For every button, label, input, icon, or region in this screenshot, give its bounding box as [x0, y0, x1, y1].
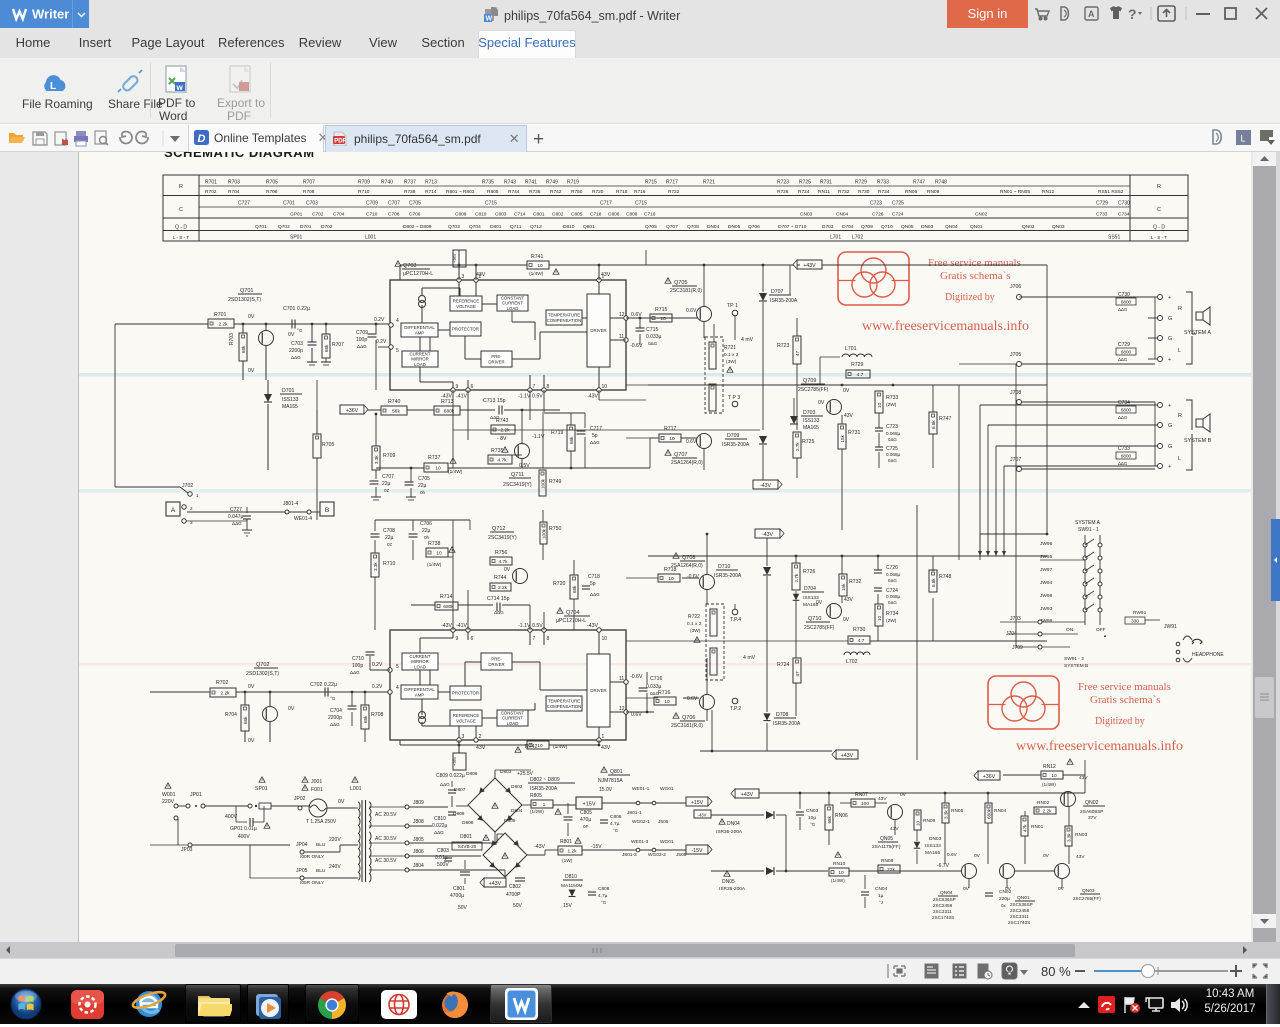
svg-text:D703: D703: [822, 224, 834, 230]
svg-text:QN04: QN04: [940, 890, 953, 896]
svg-text:Q704: Q704: [469, 224, 481, 230]
svg-text:C810: C810: [434, 816, 446, 822]
svg-text:R733: R733: [877, 180, 889, 186]
svg-text:COMPENSATION: COMPENSATION: [547, 318, 582, 323]
svg-text:µPC1270H-L: µPC1270H-L: [403, 271, 433, 277]
svg-text:GP01: GP01: [290, 212, 303, 218]
svg-text:SYSTEM B: SYSTEM B: [1064, 663, 1088, 669]
svg-text:1: 1: [196, 493, 199, 498]
svg-text:R744: R744: [508, 189, 520, 195]
svg-text:B: B: [325, 507, 329, 514]
svg-text:RN06: RN06: [835, 813, 848, 819]
svg-text:Q711: Q711: [510, 224, 522, 230]
svg-text:R729: R729: [851, 362, 864, 368]
svg-text:10: 10: [1051, 773, 1057, 779]
svg-text:Q710: Q710: [881, 224, 893, 230]
svg-text:8: 8: [547, 636, 550, 642]
svg-text:10: 10: [877, 402, 882, 408]
svg-text:ΔΔG: ΔΔG: [350, 670, 360, 675]
svg-text:4.7k: 4.7k: [497, 458, 507, 464]
svg-text:R747: R747: [939, 416, 952, 422]
svg-text:Q709: Q709: [803, 378, 816, 384]
svg-text:68k: 68k: [572, 585, 577, 593]
svg-text:4700P: 4700P: [506, 892, 521, 898]
svg-text:J705: J705: [1010, 352, 1021, 358]
svg-text:C802: C802: [552, 212, 564, 218]
svg-text:Q712: Q712: [492, 526, 505, 532]
svg-text:D810: D810: [563, 224, 575, 230]
svg-text:68k: 68k: [363, 715, 368, 723]
svg-text:ISR35-200A: ISR35-200A: [722, 442, 750, 448]
svg-text:COMPENSATION: COMPENSATION: [547, 704, 582, 709]
svg-text:0.6V: 0.6V: [631, 712, 642, 718]
svg-text:C715: C715: [485, 201, 497, 207]
svg-text:CN02: CN02: [999, 889, 1012, 895]
svg-text:0V: 0V: [288, 706, 295, 712]
svg-text:Q706: Q706: [682, 715, 695, 721]
svg-text:C703: C703: [291, 341, 303, 347]
svg-text:C709: C709: [366, 201, 378, 207]
svg-text:AC 20.5V: AC 20.5V: [375, 812, 397, 818]
svg-text:100p: 100p: [356, 337, 367, 343]
svg-text:4.7µ: 4.7µ: [610, 821, 620, 827]
svg-text:C702 0.22µ: C702 0.22µ: [310, 682, 337, 688]
svg-text:R720: R720: [592, 189, 604, 195]
svg-text:QN01: QN01: [970, 224, 983, 230]
svg-text:°G: °G: [613, 828, 619, 833]
svg-text:R702: R702: [216, 680, 229, 686]
svg-text:(1/2W): (1/2W): [530, 809, 544, 814]
svg-text:D704: D704: [842, 224, 854, 230]
svg-text:RN01 ~ RN05: RN01 ~ RN05: [1000, 189, 1030, 195]
svg-text:2SC536SP: 2SC536SP: [933, 897, 956, 902]
svg-text:JW95: JW95: [1040, 554, 1053, 560]
svg-text:Q701: Q701: [255, 224, 267, 230]
svg-text:QN03: QN03: [1052, 224, 1065, 230]
svg-text:5p: 5p: [590, 581, 596, 587]
svg-text:C733: C733: [1096, 212, 1108, 218]
svg-text:-43V: -43V: [587, 394, 598, 400]
svg-text:C723: C723: [886, 424, 898, 430]
svg-text:22µ: 22µ: [422, 528, 431, 534]
svg-text:QN05: QN05: [880, 836, 893, 842]
svg-text:3.3k: 3.3k: [1066, 833, 1071, 842]
svg-text:15V: 15V: [563, 903, 573, 909]
svg-text:RN01: RN01: [1031, 824, 1044, 830]
svg-text:0V: 0V: [338, 799, 345, 805]
svg-text:+: +: [1168, 295, 1171, 301]
svg-text:CURRENT: CURRENT: [409, 654, 430, 659]
svg-text:AC 30.5V: AC 30.5V: [375, 836, 397, 842]
svg-text:R756: R756: [495, 550, 508, 556]
svg-text:RN05: RN05: [951, 808, 964, 814]
svg-text:R717: R717: [666, 180, 678, 186]
svg-text:C727: C727: [238, 201, 250, 207]
svg-text:J709: J709: [1012, 645, 1023, 651]
svg-text:2SC2458: 2SC2458: [933, 903, 953, 908]
svg-text:JW91: JW91: [1164, 624, 1177, 630]
svg-text:C727: C727: [230, 507, 242, 513]
svg-text:0≠: 0≠: [1001, 903, 1006, 908]
svg-text:R726: R726: [803, 569, 816, 575]
svg-text:1.2k: 1.2k: [567, 849, 577, 855]
svg-text:1: 1: [543, 802, 546, 808]
svg-text:DRIVER: DRIVER: [590, 328, 606, 333]
svg-text:+43V: +43V: [803, 263, 816, 269]
svg-text:100: 100: [861, 801, 869, 807]
svg-text:4.7k: 4.7k: [498, 559, 508, 565]
svg-text:68k: 68k: [243, 716, 248, 724]
svg-text:Q705: Q705: [674, 280, 687, 286]
svg-text:C713 15p: C713 15p: [483, 398, 506, 404]
svg-text:10: 10: [669, 436, 675, 442]
svg-text:SYSTEM A: SYSTEM A: [1184, 330, 1211, 336]
svg-text:QN04: QN04: [945, 224, 958, 230]
svg-text:11: 11: [619, 676, 624, 682]
svg-text:WG02-2: WG02-2: [648, 852, 666, 858]
svg-text:MIRROR: MIRROR: [411, 659, 428, 664]
svg-text:R: R: [1178, 306, 1182, 312]
svg-text:0ΔG: 0ΔG: [648, 341, 658, 346]
svg-text:2SC2785(FF): 2SC2785(FF): [798, 387, 829, 393]
svg-text:C715: C715: [646, 327, 659, 333]
svg-text:J706: J706: [1010, 284, 1021, 290]
svg-text:R735: R735: [491, 448, 504, 454]
svg-text:-41V: -41V: [456, 394, 467, 400]
svg-text:0.068µ: 0.068µ: [886, 594, 900, 599]
svg-text:R726: R726: [777, 189, 789, 195]
svg-text:MA165: MA165: [803, 425, 819, 431]
svg-text:10: 10: [602, 384, 608, 390]
svg-text:5: 5: [396, 348, 399, 354]
svg-text:D807: D807: [454, 787, 466, 793]
svg-text:R718: R718: [616, 189, 628, 195]
svg-text:ISS133: ISS133: [925, 843, 941, 849]
svg-text:D707 ~ D710: D707 ~ D710: [778, 224, 807, 230]
svg-text:0V: 0V: [248, 368, 255, 374]
svg-text:Q707: Q707: [666, 224, 678, 230]
svg-text:22µ: 22µ: [385, 535, 394, 541]
svg-text:(3W): (3W): [726, 359, 737, 365]
svg-text:C710: C710: [352, 656, 364, 662]
svg-text:0.6V: 0.6V: [686, 439, 697, 445]
svg-text:R734: R734: [886, 611, 899, 617]
svg-text:11: 11: [619, 334, 624, 340]
svg-text:CN03: CN03: [800, 212, 813, 218]
svg-text:-43V: -43V: [760, 483, 771, 489]
svg-text:R730: R730: [853, 627, 866, 633]
svg-text:0V: 0V: [974, 853, 981, 859]
svg-text:C707: C707: [382, 474, 394, 480]
svg-text:GP01 0.01µ: GP01 0.01µ: [230, 826, 257, 832]
svg-text:D701: D701: [282, 388, 295, 394]
svg-text:C708: C708: [388, 212, 400, 218]
svg-text:56k: 56k: [392, 409, 400, 415]
svg-text:QN02: QN02: [1022, 224, 1035, 230]
svg-text:D805: D805: [504, 818, 516, 824]
svg-text:43V: 43V: [476, 745, 486, 751]
svg-text:+: +: [1168, 357, 1171, 363]
svg-text:2SC2785(FF): 2SC2785(FF): [1073, 896, 1101, 901]
svg-text:L: L: [1241, 134, 1246, 144]
svg-text:C809 0.022µ: C809 0.022µ: [436, 773, 465, 779]
svg-text:-0.6V: -0.6V: [630, 674, 643, 680]
svg-text:JP02: JP02: [294, 796, 306, 802]
svg-text:G: G: [1168, 423, 1172, 429]
svg-text:0.6V: 0.6V: [686, 308, 697, 314]
svg-text:2SA1175(FF): 2SA1175(FF): [872, 844, 901, 850]
svg-text:Q709: Q709: [861, 224, 873, 230]
svg-text:D808: D808: [462, 820, 474, 826]
svg-text:R748: R748: [939, 574, 952, 580]
svg-text:Gratis schema`s: Gratis schema`s: [1090, 694, 1161, 706]
svg-text:43V: 43V: [1079, 775, 1088, 781]
svg-text:?: ?: [1128, 6, 1137, 22]
svg-text:0.068µ: 0.068µ: [886, 452, 900, 457]
svg-text:-0.6V: -0.6V: [687, 574, 700, 580]
svg-text:R724: R724: [777, 662, 790, 668]
svg-text:R743: R743: [496, 418, 509, 424]
svg-text:0.068µ: 0.068µ: [886, 572, 900, 577]
svg-text:JW94: JW94: [1040, 580, 1053, 586]
svg-text:JW93: JW93: [1040, 606, 1053, 612]
svg-text:4 mV: 4 mV: [741, 337, 754, 343]
svg-text:R805: R805: [530, 793, 542, 799]
svg-text:15k: 15k: [840, 434, 845, 442]
svg-text:QN05: QN05: [901, 224, 914, 230]
svg-text:R704: R704: [225, 712, 237, 718]
svg-text:J801-4: J801-4: [283, 501, 299, 507]
svg-text:JW96: JW96: [1040, 541, 1053, 547]
svg-text:LOAD: LOAD: [507, 721, 519, 726]
svg-text:JP03: JP03: [181, 847, 193, 853]
svg-text:D710: D710: [718, 564, 731, 570]
svg-text:R705: R705: [322, 442, 335, 448]
svg-text:22µ: 22µ: [418, 483, 427, 489]
svg-text:C717: C717: [590, 426, 602, 432]
svg-text:ISR35-200A: ISR35-200A: [716, 829, 743, 835]
svg-text:2SD1302(S,T): 2SD1302(S,T): [246, 671, 279, 677]
svg-text:9: 9: [456, 384, 459, 390]
svg-text:C808: C808: [598, 886, 610, 892]
svg-text:4.7: 4.7: [858, 638, 865, 644]
svg-text:0.068µ: 0.068µ: [886, 431, 900, 436]
svg-text:4700µ: 4700µ: [450, 893, 464, 899]
svg-text:C718: C718: [588, 574, 600, 580]
svg-text:R750: R750: [549, 526, 562, 532]
svg-text:+15V: +15V: [583, 802, 596, 808]
svg-text:+36V: +36V: [452, 756, 457, 766]
svg-text:°G: °G: [297, 328, 303, 333]
svg-text:R721: R721: [703, 180, 715, 186]
svg-text:DN05: DN05: [722, 879, 735, 885]
svg-text:0V: 0V: [248, 738, 255, 744]
svg-text:C: C: [179, 207, 183, 213]
svg-text:100p: 100p: [352, 663, 363, 669]
svg-text:C723: C723: [870, 201, 882, 207]
svg-text:R748: R748: [935, 180, 947, 186]
svg-text:Word: Word: [159, 109, 187, 122]
svg-text:ΔΔG: ΔΔG: [590, 440, 600, 445]
svg-text:2: 2: [479, 734, 482, 740]
svg-text:3.3k: 3.3k: [943, 810, 948, 819]
svg-text:C730: C730: [1118, 201, 1130, 207]
svg-text:500V: 500V: [437, 862, 449, 868]
svg-text:Export to: Export to: [217, 96, 265, 110]
svg-text:1: 1: [602, 734, 605, 740]
svg-text:D702: D702: [321, 224, 333, 230]
svg-text:J801-1: J801-1: [627, 810, 642, 816]
svg-text:Gratis schema`s: Gratis schema`s: [940, 270, 1011, 282]
svg-text:AC 30.5V: AC 30.5V: [375, 858, 397, 864]
svg-text:0.2V: 0.2V: [374, 317, 385, 323]
svg-text:J703: J703: [1010, 616, 1021, 622]
svg-text:0V: 0V: [504, 567, 511, 573]
svg-text:ΔΔG: ΔΔG: [330, 722, 340, 727]
svg-text:PROTECTOR: PROTECTOR: [452, 691, 479, 696]
svg-text:D701: D701: [300, 224, 312, 230]
svg-text:R801 ~ R803: R801 ~ R803: [446, 189, 475, 195]
svg-text:SW91 - 1: SW91 - 1: [1078, 527, 1099, 533]
svg-text:0V: 0V: [1043, 853, 1050, 859]
svg-text:J505: J505: [658, 819, 669, 825]
svg-text:R730: R730: [858, 189, 870, 195]
svg-text:C708: C708: [383, 528, 395, 534]
svg-text:R732: R732: [849, 579, 862, 585]
svg-text:RW91: RW91: [1133, 610, 1147, 616]
svg-text:R718: R718: [664, 567, 677, 573]
svg-text:RS51 RS52: RS51 RS52: [1098, 189, 1124, 195]
svg-text:DRIVER: DRIVER: [488, 662, 504, 667]
svg-text:L: L: [1178, 456, 1181, 462]
svg-text:R701: R701: [205, 180, 217, 186]
svg-text:68k: 68k: [324, 344, 329, 352]
svg-text:0ΔG: 0ΔG: [888, 437, 897, 442]
svg-text:D802 ~ D809: D802 ~ D809: [403, 224, 432, 230]
svg-text:D709: D709: [727, 433, 740, 439]
svg-text:+36V: +36V: [346, 408, 359, 414]
svg-text:R805: R805: [487, 189, 499, 195]
svg-text:MA1150M: MA1150M: [561, 883, 583, 889]
svg-text:RN09: RN09: [923, 818, 936, 824]
svg-text:▲: ▲: [1103, 633, 1107, 638]
svg-text:R716: R716: [658, 690, 671, 696]
svg-text:3: 3: [462, 274, 465, 280]
svg-text:C810: C810: [475, 212, 487, 218]
svg-text:Q - D: Q - D: [1153, 225, 1165, 231]
svg-text:-43V: -43V: [762, 532, 773, 538]
svg-text:1µ: 1µ: [878, 893, 884, 899]
svg-text:J809: J809: [413, 800, 424, 806]
svg-text:4 mV: 4 mV: [743, 655, 756, 661]
svg-text:R724: R724: [798, 189, 810, 195]
svg-text:R709: R709: [358, 180, 370, 186]
svg-text:47: 47: [795, 671, 800, 677]
svg-text:- 8V: - 8V: [497, 436, 507, 442]
svg-text:6800: 6800: [1121, 350, 1132, 355]
svg-text:0≠: 0≠: [387, 542, 393, 547]
svg-text:C705: C705: [409, 201, 421, 207]
svg-text:C716: C716: [644, 212, 656, 218]
svg-text:R703: R703: [228, 180, 240, 186]
svg-text:2200p: 2200p: [328, 715, 342, 721]
svg-text:2.7k: 2.7k: [795, 442, 800, 451]
svg-text:22µ: 22µ: [382, 481, 391, 487]
svg-text:R713: R713: [425, 180, 437, 186]
svg-text:Q711: Q711: [511, 472, 524, 478]
svg-text:R740: R740: [381, 180, 393, 186]
svg-text:C704: C704: [330, 708, 342, 714]
svg-text:10: 10: [915, 820, 920, 826]
svg-text:68k: 68k: [827, 815, 832, 823]
svg-text:J804: J804: [413, 863, 424, 869]
svg-text:Q708: Q708: [687, 224, 699, 230]
svg-text:J806: J806: [413, 849, 424, 855]
svg-text:8: 8: [547, 384, 550, 390]
svg-text:µPC1270H-L: µPC1270H-L: [556, 618, 586, 624]
svg-text:ISR35-200A: ISR35-200A: [770, 298, 798, 304]
svg-text:R710: R710: [383, 561, 396, 567]
svg-text:RN07: RN07: [855, 792, 868, 798]
svg-text:S4VB-20: S4VB-20: [458, 844, 477, 849]
svg-text:2SA1264(R,0): 2SA1264(R,0): [671, 460, 703, 466]
svg-text:C716: C716: [650, 676, 663, 682]
svg-text:43V: 43V: [844, 597, 854, 603]
svg-text:MA165: MA165: [282, 404, 298, 410]
svg-text:R722: R722: [688, 614, 700, 620]
svg-text:R704: R704: [228, 189, 240, 195]
svg-text:C806: C806: [608, 212, 620, 218]
svg-text:L: L: [1178, 348, 1181, 354]
svg-text:L702: L702: [846, 659, 858, 665]
svg-text:D806: D806: [466, 771, 478, 777]
svg-text:LOAD: LOAD: [507, 306, 519, 311]
svg-text:A: A: [1088, 9, 1095, 19]
svg-text:ISS133: ISS133: [803, 418, 820, 424]
svg-text:4.7µ: 4.7µ: [598, 893, 608, 899]
svg-text:2SC3419(Y): 2SC3419(Y): [488, 535, 517, 541]
svg-text:CONSTANT: CONSTANT: [501, 295, 525, 300]
svg-text:50V: 50V: [458, 905, 468, 911]
svg-text:DRIVER: DRIVER: [590, 688, 606, 693]
svg-text:R716: R716: [634, 189, 646, 195]
svg-text:(3W): (3W): [690, 628, 701, 634]
svg-text:(1W): (1W): [562, 858, 573, 864]
svg-text:R720: R720: [553, 581, 566, 587]
svg-text:ΔΔG: ΔΔG: [440, 782, 450, 787]
svg-text:R741: R741: [531, 254, 544, 260]
svg-text:CN04: CN04: [836, 212, 849, 218]
svg-text:D809: D809: [453, 811, 465, 817]
svg-text:ΔΔG: ΔΔG: [1118, 415, 1128, 420]
svg-text:(1/4W): (1/4W): [427, 562, 442, 568]
svg-text:(1/4W): (1/4W): [831, 878, 845, 883]
svg-text:CN02: CN02: [975, 212, 988, 218]
svg-text:ΔΔG: ΔΔG: [232, 521, 242, 526]
svg-text:DIFFERENTIAL: DIFFERENTIAL: [404, 687, 435, 692]
svg-text:R714: R714: [425, 189, 437, 195]
svg-text:www.freeservicemanuals.info: www.freeservicemanuals.info: [1016, 739, 1183, 754]
svg-text:C803: C803: [437, 848, 449, 854]
svg-text:0.1 x 2: 0.1 x 2: [724, 352, 739, 358]
svg-text:2SC3419(Y): 2SC3419(Y): [503, 482, 532, 488]
svg-text:2SC1740S: 2SC1740S: [1008, 920, 1030, 925]
svg-text:R703: R703: [229, 333, 235, 345]
svg-text:PRE-: PRE-: [491, 354, 502, 359]
svg-text:RN11: RN11: [818, 189, 830, 195]
svg-text:R706: R706: [266, 189, 278, 195]
svg-text:15.0V: 15.0V: [599, 787, 613, 793]
